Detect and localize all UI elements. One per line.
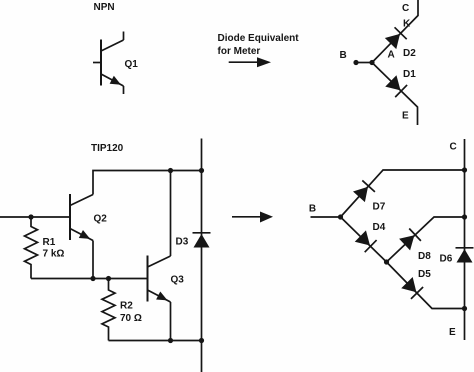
junction R2 top / bus (106, 276, 111, 281)
svg-text:D7: D7 (373, 202, 386, 213)
wire Q3 emitter down (170, 302, 172, 341)
diode D1 (385, 75, 407, 97)
svg-text:NPN: NPN (94, 2, 115, 13)
diode D4 (354, 230, 376, 252)
wire D1 branch to E (372, 63, 418, 126)
wire emitter bus (31, 278, 148, 280)
svg-text:Q2: Q2 (94, 214, 108, 225)
svg-text:D2: D2 (403, 48, 416, 59)
resistor R2 (102, 279, 115, 341)
junction rail/D8 (462, 214, 467, 219)
svg-text:K: K (403, 19, 411, 30)
svg-text:B: B (340, 50, 347, 61)
wire D7 branch to C (341, 170, 465, 217)
svg-text:D5: D5 (418, 269, 431, 280)
svg-text:A: A (388, 50, 395, 61)
wire D4 branch (341, 217, 387, 262)
wire C-E rail with D6 (464, 139, 466, 340)
diode D8 (399, 229, 421, 251)
junction bottom bus / rail (199, 338, 204, 343)
label Diode Equivalent for Meter (218, 33, 300, 57)
junction Q3 emitter / bottom bus (168, 338, 173, 343)
svg-text:D6: D6 (440, 253, 453, 264)
svg-text:7 kΩ: 7 kΩ (43, 249, 65, 260)
svg-text:B: B (309, 204, 316, 215)
wire collector rail with D3 (201, 139, 203, 372)
arrow equivalent pointer (232, 212, 273, 223)
svg-text:C: C (450, 142, 457, 153)
wire D5 branch to E (387, 262, 465, 309)
wire base B (356, 62, 372, 64)
junction rail/D5 (462, 306, 467, 311)
wire base input (0, 216, 70, 218)
wire D8 branch (387, 217, 465, 262)
svg-text:E: E (449, 327, 456, 338)
wire C lead to D2 (372, 0, 418, 63)
svg-text:R1: R1 (43, 237, 56, 248)
diode D3 (193, 233, 211, 248)
transistor Q3 (148, 256, 171, 305)
node B terminal (353, 60, 358, 65)
wire Q2 collector to top rail (93, 171, 202, 195)
svg-text:for Meter: for Meter (218, 46, 261, 57)
diode D7 (353, 180, 375, 202)
transistor Q2 (70, 194, 93, 243)
wire bottom bus (109, 340, 202, 342)
wire Q1 collector lead (123, 32, 125, 41)
svg-text:Q1: Q1 (125, 59, 139, 70)
wire base B2 (311, 216, 341, 218)
svg-text:D3: D3 (176, 237, 189, 248)
svg-text:R2: R2 (120, 301, 133, 312)
svg-text:C: C (402, 3, 409, 14)
svg-text:70 Ω: 70 Ω (120, 313, 142, 324)
junction Q3 collector / top wire (168, 168, 173, 173)
svg-text:Diode Equivalent: Diode Equivalent (218, 33, 300, 44)
svg-text:D8: D8 (418, 251, 431, 262)
junction B node (338, 214, 343, 219)
arrow meter-equivalent pointer (229, 57, 271, 67)
wire Q3 collector up (170, 171, 172, 257)
svg-text:TIP120: TIP120 (91, 143, 124, 154)
junction top wire / rail (199, 168, 204, 173)
svg-text:E: E (402, 111, 409, 122)
wire Q1 emitter lead (123, 86, 125, 94)
diode D6 (456, 248, 474, 263)
junction base/R1 (28, 214, 33, 219)
diode D5 (401, 277, 423, 299)
junction rail/D7 (462, 167, 467, 172)
svg-text:Q3: Q3 (171, 275, 185, 286)
junction D4/D8/D5 node (384, 259, 389, 264)
junction base node (369, 60, 374, 65)
resistor R1 (25, 217, 38, 279)
diode D2 (384, 27, 406, 49)
svg-text:D4: D4 (373, 222, 386, 233)
junction Q2 emitter / bus (90, 276, 95, 281)
wire Q2 emitter down (92, 241, 94, 279)
svg-text:D1: D1 (403, 69, 416, 80)
transistor Q1 (93, 40, 124, 89)
